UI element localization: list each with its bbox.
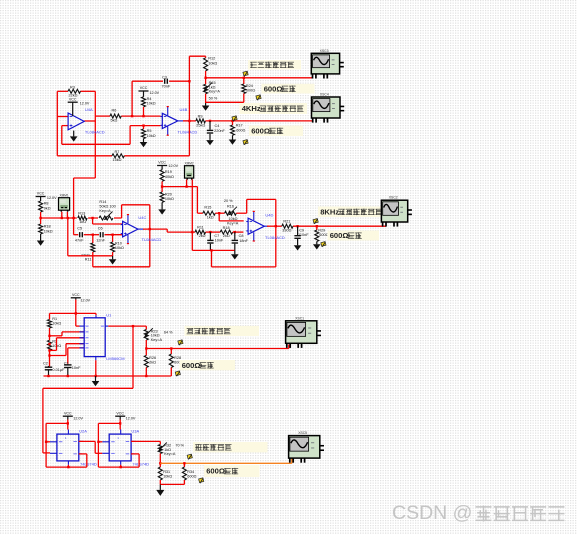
svg-text:70nF: 70nF [162,85,171,89]
label 600ohm load 1 [262,84,315,94]
probe P10 [199,478,205,483]
svg-text:12.0V: 12.0V [126,416,136,420]
wire C3 feedback branch [132,81,189,116]
resistor R9 [196,114,206,127]
probe P6 [321,242,327,247]
svg-text:C8: C8 [239,234,244,238]
resistor R18h [220,226,233,238]
wire pin5 link [68,348,84,364]
op-amp U4B [161,107,198,136]
svg-text:5kΩ: 5kΩ [111,118,118,122]
svg-text:10kΩ: 10kΩ [163,474,172,478]
resistor R18a [39,217,53,234]
svg-text:10nF: 10nF [215,239,224,243]
resistor R15b [203,205,216,219]
svg-text:C2: C2 [43,362,48,366]
svg-text:R1: R1 [52,317,57,321]
multimeter XMM1 [59,193,70,218]
capacitor C1 [64,362,81,376]
capacitor C7 [207,231,224,251]
potentiometer R16 [224,199,239,226]
label 600ohm load 2 [249,126,303,137]
svg-text:600Ω: 600Ω [187,474,196,478]
ground under U4A [70,131,78,142]
svg-text:600Ω: 600Ω [319,233,328,237]
junction R6/C3 branch [131,115,133,117]
resistor R13 [77,211,88,224]
svg-text:2kΩ: 2kΩ [149,360,156,364]
svg-text:R12: R12 [208,57,215,61]
svg-text:C9: C9 [299,229,304,233]
ground under U1 rail [92,376,100,386]
svg-text:U4D: U4D [265,212,273,217]
svg-text:10nF: 10nF [72,366,81,370]
resistor R24 [242,77,255,103]
svg-text:64 %: 64 % [164,331,173,335]
wire U2A preset/loop [45,423,87,468]
svg-text:50 %: 50 % [209,96,218,100]
svg-text:12.0V: 12.0V [47,196,57,200]
resistor R4 [142,91,156,107]
svg-text:R13: R13 [78,211,85,215]
svg-text:600Ω: 600Ω [251,126,270,135]
wire top to R12 [189,55,205,57]
svg-text:C4: C4 [215,124,220,128]
wire U4A noninverting input [57,116,68,118]
wire VCC stem U1 [50,300,97,327]
wire U1 bottom pin [95,360,97,376]
svg-text:R4: R4 [147,97,152,101]
resistor R5 [142,124,156,138]
wire U4D output line [264,225,386,227]
svg-text:XSC1: XSC1 [295,316,304,320]
ground under rail [109,256,117,265]
svg-text:74LS74D: 74LS74D [80,462,97,467]
resistor R11 vertical [81,234,95,262]
ground under R31 [156,484,164,496]
potentiometer R14 [98,200,116,221]
wire triangle-wave line [204,77,312,79]
resistor R28 [169,347,183,376]
svg-text:TL084ACD: TL084ACD [142,237,162,242]
svg-text:VCC: VCC [72,293,80,297]
label 8KHz sine test port [318,207,390,218]
svg-text:12.0V: 12.0V [168,164,178,168]
svg-text:R31: R31 [163,470,170,474]
svg-text:XSC5: XSC5 [298,431,307,435]
resistor R2 [48,339,62,350]
instrument XMM2 [184,161,193,250]
resistor R26 [144,355,156,376]
svg-text:R6: R6 [112,109,117,113]
capacitor C5 [75,226,84,242]
label 600ohm load 5 [204,465,260,477]
ground under R18a [37,234,45,246]
wire pulse line [146,345,288,349]
probe P2 [256,95,262,100]
svg-text:47nF: 47nF [75,238,84,242]
wire R4 to U4B + input [142,107,144,117]
label triangle-wave test port [248,60,301,70]
resistor R7 [112,150,124,162]
potentiometer R23 [144,328,173,355]
wire U3A Q to pot [131,441,160,444]
svg-text:1kΩ: 1kΩ [207,216,214,220]
VCC U3A [115,411,136,429]
svg-text:VCC: VCC [37,192,45,196]
svg-text:110nF: 110nF [298,233,309,237]
potentiometer R32 [158,443,185,468]
svg-text:R21: R21 [283,220,290,224]
svg-text:20 %: 20 % [224,199,233,203]
probe P3 [232,116,238,121]
wire R6 line [95,115,160,117]
svg-text:25kΩ: 25kΩ [196,123,205,127]
svg-text:600Ω: 600Ω [264,84,283,93]
op-amp U4A [68,107,105,134]
VCC R8 column [36,192,57,200]
svg-text:C5: C5 [77,226,82,230]
flip-flop U3A [102,429,149,467]
resistor R13 gap [40,217,42,219]
svg-text:10kΩ: 10kΩ [44,229,53,233]
svg-text:2kΩ: 2kΩ [223,234,230,238]
flip-flop U2A [50,429,97,467]
svg-text:10kΩ: 10kΩ [147,134,156,138]
label pulse test port [185,326,260,336]
capacitor C2 [43,362,65,376]
svg-text:10kΩ: 10kΩ [115,246,124,250]
probe P5 [313,219,319,224]
wire R1-R2 junction [48,328,50,340]
svg-text:8KHz: 8KHz [320,207,339,216]
svg-text:R14: R14 [99,200,106,204]
svg-text:15kΩ: 15kΩ [113,158,122,162]
svg-text:10kΩ: 10kΩ [147,102,156,106]
svg-text:1kΩ: 1kΩ [79,220,86,224]
resistor R31 [158,467,172,484]
svg-text:R28: R28 [174,356,181,360]
VCC R19 column [157,161,178,168]
svg-text:10kΩ: 10kΩ [208,61,217,65]
ground under C9 [294,245,302,251]
svg-text:12.0V: 12.0V [150,91,160,95]
wire U3A preset/loop [97,423,139,468]
wire U4C output [138,228,195,232]
wire bias line y218 [41,217,122,219]
svg-text:LM566CM: LM566CM [106,356,124,361]
svg-text:12nF: 12nF [96,238,105,242]
wire R14 wiper to U4C loop [122,205,150,218]
watermark CSDN [392,502,564,524]
VCC U4A [68,97,90,116]
wire bottom load rail [160,483,184,485]
svg-text:R8: R8 [44,202,49,206]
oscilloscope XSC4 [312,93,345,123]
svg-text:12.0V: 12.0V [81,298,91,302]
svg-text:600Ω: 600Ω [330,231,349,240]
svg-text:R11: R11 [197,226,204,230]
svg-text:XMM2: XMM2 [184,161,193,165]
ground under R15 [202,103,210,111]
resistor R19 [160,166,174,187]
probe P4 [243,140,249,145]
oscilloscope XSC1 [286,316,321,348]
svg-text:R3: R3 [70,85,75,89]
svg-text:50kΩ 100: 50kΩ 100 [99,205,115,209]
svg-text:U1: U1 [106,312,112,317]
svg-text:TL084ACD: TL084ACD [85,129,105,134]
wire ground rail C7C8 [192,249,235,251]
svg-text:9kΩ: 9kΩ [44,206,51,210]
svg-text:U4C: U4C [138,215,146,220]
wire pin3 link [48,338,84,352]
IC U1 LM566 [80,312,125,360]
resistor R34 [182,462,196,484]
wire pin2 link [50,332,85,336]
wire U4A inverting input loop [62,126,130,145]
potentiometer R15 [203,81,220,103]
VCC U2A [63,411,84,429]
svg-text:600Ω: 600Ω [236,129,245,133]
wire C5/C6 line [74,234,123,236]
wire R15b-R16 segment [215,212,224,214]
svg-text:XMM1: XMM1 [59,193,68,197]
svg-text:VCC: VCC [140,86,148,90]
probe P9 [187,454,193,459]
svg-text:U2A: U2A [79,429,87,434]
ground under R17 [229,139,237,145]
svg-text:R18: R18 [44,225,51,229]
svg-text:Key=A: Key=A [164,452,176,456]
svg-text:2kΩ: 2kΩ [199,234,206,238]
VCC R4 [139,86,160,95]
wire U1 output [108,325,146,330]
svg-text:4KHz: 4KHz [242,104,261,113]
wire U4A output [84,120,95,122]
resistor R17 [231,120,246,139]
svg-text:Key=A: Key=A [151,338,163,342]
wire R24 bottom to pot [206,101,244,103]
svg-text:220nF: 220nF [214,129,225,133]
capacitor C8 [232,231,249,251]
svg-text:C7: C7 [214,234,219,238]
svg-text:R26: R26 [149,356,156,360]
resistor R8 [39,197,51,219]
svg-text:C6: C6 [98,226,103,230]
probe P8 [175,371,181,376]
svg-text:10kΩ: 10kΩ [52,321,61,325]
resistor R20 [160,187,174,203]
svg-text:12.0V: 12.0V [73,416,83,420]
wire R1 column top [49,313,51,319]
svg-text:0.01μF: 0.01μF [53,368,66,372]
wire C2 column [49,350,51,366]
oscilloscope XSC5 [289,431,324,463]
svg-text:R11: R11 [85,258,92,262]
wire square-wave line orange [160,458,291,463]
svg-text:70 %: 70 % [175,444,184,448]
probe P7 [178,340,184,345]
svg-text:10kΩ: 10kΩ [151,334,160,338]
svg-text:C3: C3 [162,76,167,80]
capacitor C4 [207,120,226,140]
wire ground rail y255.8 [61,217,113,256]
svg-text:R18: R18 [223,226,230,230]
svg-text:R20: R20 [165,192,172,196]
svg-text:Key=A: Key=A [99,209,111,213]
oscilloscope XSC3 [311,49,344,79]
svg-text:R17: R17 [236,124,243,128]
ground under R5 [140,139,148,148]
resistor R29 [315,225,329,244]
svg-text:R7: R7 [115,150,120,154]
svg-text:R10: R10 [115,241,122,245]
wire R19/R20 junction line [161,185,198,187]
capacitor C9 [294,225,309,245]
svg-text:40kΩ: 40kΩ [165,175,174,179]
VCC U1 [71,293,91,302]
svg-text:R9: R9 [198,114,203,118]
svg-text:XSC4: XSC4 [320,93,329,97]
svg-text:XSC2: XSC2 [389,196,398,200]
label square-wave test port [193,442,268,452]
svg-text:10kΩ: 10kΩ [165,197,174,201]
op-amp U4D [246,211,285,241]
wire U4D + input [219,213,244,221]
resistor R1 [48,317,62,328]
ground under R20 [158,202,166,214]
wire ground rail U1 [44,375,172,377]
wire clock feed [43,326,133,453]
wire R15b feed [197,187,202,214]
svg-text:R34: R34 [187,470,194,474]
svg-text:TL084ACD: TL084ACD [265,235,285,240]
wire U4A feedback loop left/top/bottom rails [57,91,189,156]
svg-text:600Ω: 600Ω [246,88,255,92]
svg-text:VCC: VCC [116,411,124,415]
wire U4D feedback loop [212,199,276,267]
svg-text:74LS74D: 74LS74D [132,462,149,467]
wire U4B inverting input [130,126,160,145]
label 600ohm load 4 [180,360,236,370]
resistor R12 [204,56,218,84]
ground under C4 [206,139,214,145]
ground under C8 rail [231,250,239,259]
oscilloscope XSC2 [381,196,412,227]
probe P1 [243,71,249,76]
svg-text:Key=A: Key=A [227,222,239,226]
svg-text:330Ω: 330Ω [282,228,291,232]
svg-text:R5: R5 [147,129,152,133]
svg-text:C1: C1 [64,362,69,366]
resistor R21 [282,220,293,233]
svg-text:600Ω: 600Ω [182,361,201,370]
svg-text:VCC: VCC [69,97,77,101]
svg-text:VCC: VCC [158,161,166,165]
svg-text:R16: R16 [227,205,234,209]
svg-text:R24: R24 [246,84,253,88]
svg-text:12.0V: 12.0V [80,101,90,105]
wire U2A Q to U3A clock [79,441,103,453]
svg-text:R19: R19 [165,170,172,174]
wire from top block down to middle [74,178,96,235]
svg-text:18nF: 18nF [239,239,248,243]
svg-text:U3A: U3A [131,429,139,434]
svg-text:R29: R29 [318,229,325,233]
svg-text:CSDN @: CSDN @ [392,502,472,524]
svg-text:600Ω: 600Ω [206,467,225,476]
svg-text:VCC: VCC [64,411,72,415]
wire 4KHz sine line [205,120,313,122]
resistor R11h [195,226,206,238]
wire filter line mid [206,231,221,233]
label 600ohm load 3 [328,231,380,241]
wire pin4 link [48,344,84,357]
svg-text:R15: R15 [204,205,211,209]
wire tall rail x189 [188,56,190,156]
resistor R10 [111,234,124,256]
capacitor C6 [96,226,105,242]
ground under R29 [313,244,321,250]
svg-text:U4A: U4A [85,107,93,112]
svg-text:Key=A: Key=A [209,90,221,94]
resistor R3 [68,85,81,97]
wire filter line right [233,231,244,233]
svg-text:U4B: U4B [180,107,188,112]
resistor R6 [110,109,121,123]
wire U4B output [178,120,196,122]
wire U4C feedback loop [93,205,150,267]
capacitor C3 [162,76,171,89]
op-amp U4C [121,215,162,244]
wire U4A output right rail [94,91,96,178]
svg-text:TL084ACD: TL084ACD [178,129,198,134]
svg-text:XSC3: XSC3 [320,49,329,53]
label 4KHz sine test port [240,103,308,114]
wire U4C + input tap [93,218,123,224]
